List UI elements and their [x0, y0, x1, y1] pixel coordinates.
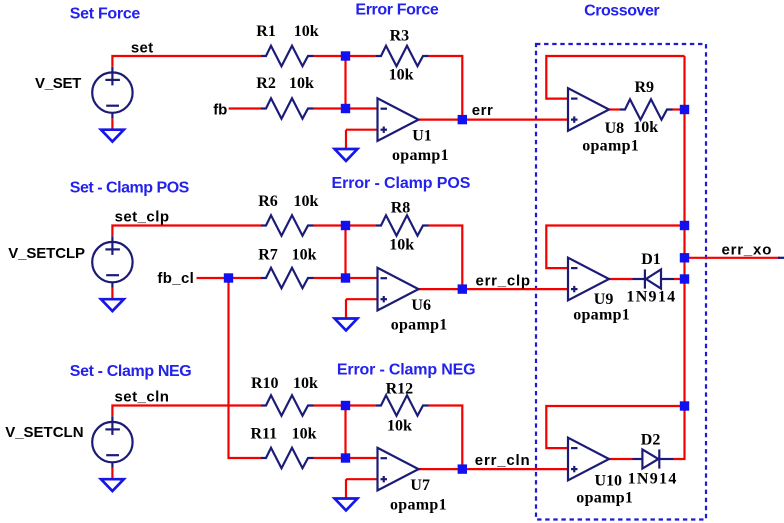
junction node err_clp	[458, 284, 467, 293]
svg-text:R3: R3	[390, 28, 410, 45]
wire net fb_cl to R7	[197, 277, 262, 279]
resistor R1	[261, 46, 314, 66]
wire D1 to bus	[674, 278, 685, 280]
svg-text:10k: 10k	[389, 67, 414, 84]
svg-text:opamp1: opamp1	[392, 147, 449, 164]
wire V_SETCLN bottom to ground	[111, 468, 113, 479]
junction node U9 feedback on bus	[680, 221, 689, 230]
wire net set: source top to R1	[112, 56, 261, 67]
wire junction to R12	[346, 404, 377, 406]
svg-text:set: set	[131, 40, 154, 57]
junction node err	[458, 115, 467, 124]
junction node U1 inverting	[341, 104, 350, 113]
wire R7 right to junction	[314, 277, 346, 279]
svg-text:err_cln: err_cln	[475, 452, 531, 469]
wire U6 output err_clp to U9 input	[419, 288, 569, 290]
svg-text:V_SET: V_SET	[35, 75, 81, 92]
wire crossover bus vertical to D2	[674, 56, 685, 459]
svg-text:fb_cl: fb_cl	[157, 270, 194, 287]
wire V_SETCLP bottom to ground	[111, 288, 113, 299]
junction node err_xo tap	[680, 253, 689, 262]
wire junction vertical R1-R2	[344, 56, 346, 109]
svg-text:R7: R7	[258, 247, 278, 264]
wire fb_cl junction down to R11	[229, 278, 262, 458]
op-amp U10	[568, 438, 609, 481]
junction node R6-R8	[341, 221, 350, 230]
wire U8 feedback loop	[546, 56, 684, 99]
svg-text:U6: U6	[411, 297, 431, 314]
voltage source V_SET	[92, 67, 132, 119]
crossover dashed boundary box	[536, 44, 706, 520]
svg-text:10k: 10k	[387, 418, 412, 435]
voltage source V_SETCLP	[92, 236, 132, 288]
resistor R9	[620, 99, 673, 119]
svg-text:U8: U8	[605, 120, 625, 137]
svg-text:10k: 10k	[292, 426, 317, 443]
resistor R11	[261, 448, 314, 468]
resistor R8	[376, 215, 429, 235]
svg-text:err: err	[472, 102, 494, 119]
svg-text:10k: 10k	[633, 119, 658, 136]
junction node fb_cl	[224, 273, 233, 282]
wire junction vertical R10-R11	[344, 406, 346, 459]
svg-text:R1: R1	[256, 23, 276, 40]
svg-text:Error - Clamp NEG: Error - Clamp NEG	[337, 361, 475, 378]
svg-text:Set Force: Set Force	[70, 6, 141, 23]
wire R12 right feedback down to err_cln node	[429, 406, 463, 470]
svg-text:10k: 10k	[389, 237, 414, 254]
resistor R10	[261, 395, 314, 415]
svg-text:opamp1: opamp1	[391, 317, 448, 334]
svg-text:set_cln: set_cln	[115, 389, 170, 406]
junction node err_cln	[458, 464, 467, 473]
op-amp U8	[568, 88, 609, 131]
op-amp U6	[378, 268, 419, 311]
wire R2 right to junction	[314, 107, 346, 109]
ground below V_SETCLP	[101, 299, 124, 311]
svg-text:set_clp: set_clp	[115, 208, 170, 225]
junction node R10-R12	[341, 401, 350, 410]
wire U7 noninverting input to ground	[346, 479, 378, 498]
svg-text:D1: D1	[641, 251, 661, 268]
resistor R7	[261, 268, 314, 288]
wire net set_clp: source top to R6	[112, 226, 261, 237]
svg-text:V_SETCLN: V_SETCLN	[5, 424, 83, 441]
svg-text:U9: U9	[594, 291, 614, 308]
err_xo edge pin stub	[778, 257, 784, 259]
wire net fb to R2	[229, 107, 261, 109]
wire U9 feedback loop	[546, 226, 684, 269]
svg-text:err_clp: err_clp	[476, 272, 531, 289]
wire net set_cln: source top to R10	[112, 406, 261, 417]
svg-text:10k: 10k	[292, 247, 317, 264]
wire V_SET bottom to ground	[111, 118, 113, 129]
wire junction to R8	[346, 224, 377, 226]
wire R10 right to junction	[314, 404, 346, 406]
wire junction to U7 inverting input	[346, 457, 378, 459]
wire R6 right to junction	[314, 224, 346, 226]
diode D2	[633, 449, 674, 468]
wire junction vertical R6-R7	[344, 226, 346, 279]
svg-text:R6: R6	[258, 193, 278, 210]
junction node U6 inverting	[341, 273, 350, 282]
junction node R9 output on bus	[680, 105, 689, 114]
svg-text:opamp1: opamp1	[573, 307, 630, 324]
wire R8 right feedback down to err_clp node	[429, 226, 463, 290]
wire junction to U6 inverting input	[346, 277, 378, 279]
wire U10 output to D2	[609, 458, 633, 460]
junction node D1 on bus	[680, 274, 689, 283]
ground below V_SET	[101, 130, 124, 142]
svg-text:err_xo: err_xo	[722, 241, 773, 258]
svg-text:10k: 10k	[293, 375, 318, 392]
svg-text:Error - Clamp POS: Error - Clamp POS	[332, 175, 471, 192]
ground below V_SETCLN	[101, 479, 124, 491]
svg-text:R9: R9	[635, 79, 655, 96]
svg-text:10k: 10k	[289, 75, 314, 92]
svg-text:10k: 10k	[294, 193, 319, 210]
svg-text:Set - Clamp NEG: Set - Clamp NEG	[70, 363, 192, 380]
svg-text:U10: U10	[595, 473, 623, 490]
svg-text:R8: R8	[391, 200, 411, 217]
resistor R3	[376, 46, 429, 66]
op-amp U7	[378, 448, 419, 491]
svg-text:opamp1: opamp1	[576, 490, 633, 507]
wire U9 output to D1	[609, 278, 633, 280]
wire R1 right to junction	[314, 55, 346, 57]
wire R3 right feedback down to err node	[429, 56, 463, 120]
ground at U1 noninverting input	[335, 149, 358, 161]
wire net err_xo	[685, 257, 781, 259]
svg-text:R12: R12	[386, 381, 414, 398]
svg-text:opamp1: opamp1	[582, 138, 639, 155]
svg-text:opamp1: opamp1	[390, 497, 447, 514]
ground at U7 noninverting input	[335, 499, 358, 511]
resistor R6	[261, 215, 314, 235]
svg-text:Set - Clamp POS: Set - Clamp POS	[70, 180, 190, 197]
op-amp U1	[378, 98, 419, 141]
resistor R12	[376, 395, 429, 415]
junction node U10 feedback on bus	[680, 401, 689, 410]
wire U1 output to err node to U8 input	[419, 118, 569, 120]
wire R9 right to bus	[673, 108, 685, 110]
svg-text:fb: fb	[213, 101, 227, 118]
svg-text:1N914: 1N914	[628, 471, 678, 488]
wire U1 noninverting input to ground	[346, 130, 378, 149]
svg-text:Crossover: Crossover	[584, 2, 659, 19]
wire U8 output to R9	[609, 108, 620, 110]
junction node U7 inverting	[341, 453, 350, 462]
svg-text:U1: U1	[412, 128, 432, 145]
svg-text:R10: R10	[251, 375, 279, 392]
wire junction to U1 inverting input	[346, 107, 378, 109]
diode D1	[633, 269, 675, 288]
junction node R1-R3	[341, 51, 350, 60]
ground at U6 noninverting input	[335, 319, 358, 331]
svg-text:U7: U7	[410, 477, 430, 494]
wire U7 output err_cln to U10 input	[419, 468, 569, 470]
wire junction to R3	[346, 55, 377, 57]
voltage source V_SETCLN	[92, 416, 132, 468]
svg-text:V_SETCLP: V_SETCLP	[8, 245, 85, 262]
resistor R2	[261, 98, 314, 118]
wire U10 feedback loop	[546, 406, 684, 448]
svg-text:1N914: 1N914	[626, 289, 676, 306]
wire U6 noninverting input to ground	[346, 299, 378, 318]
svg-text:D2: D2	[641, 432, 661, 449]
svg-text:R2: R2	[256, 75, 276, 92]
svg-text:Error Force: Error Force	[355, 1, 439, 18]
wire R11 right to junction	[314, 457, 346, 459]
svg-text:R11: R11	[251, 426, 278, 443]
op-amp U9	[568, 258, 609, 301]
svg-text:10k: 10k	[294, 23, 319, 40]
